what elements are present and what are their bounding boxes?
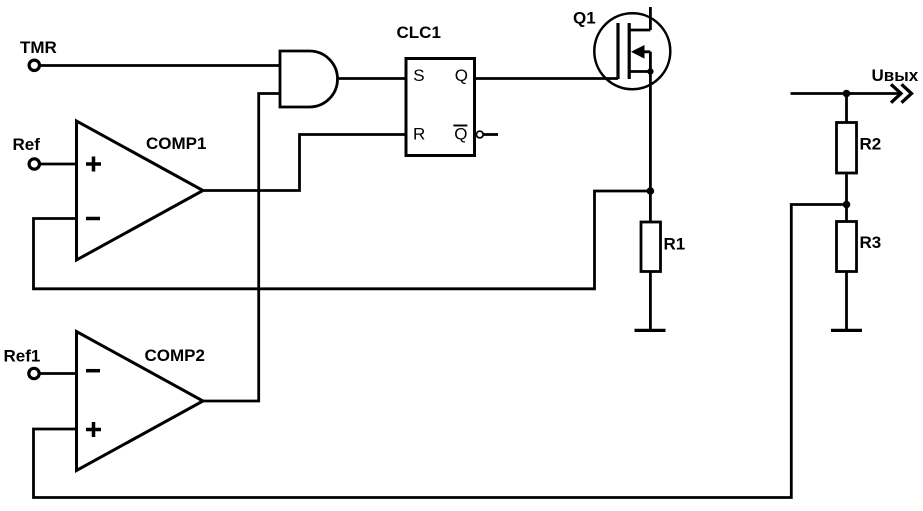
svg-text:COMP1: COMP1 — [146, 134, 206, 153]
svg-text:R1: R1 — [664, 235, 686, 254]
svg-text:Q1: Q1 — [573, 9, 596, 28]
svg-text:R: R — [413, 125, 425, 144]
svg-text:R3: R3 — [860, 233, 882, 252]
svg-text:TMR: TMR — [20, 38, 57, 57]
svg-text:Q: Q — [454, 125, 467, 144]
svg-text:R2: R2 — [860, 135, 882, 154]
svg-text:S: S — [413, 66, 424, 85]
svg-text:CLC1: CLC1 — [397, 23, 441, 42]
svg-text:Q: Q — [455, 66, 468, 85]
svg-text:Ref: Ref — [13, 135, 41, 154]
svg-text:Ref1: Ref1 — [4, 347, 41, 366]
svg-text:Uвых: Uвых — [872, 66, 919, 85]
svg-text:COMP2: COMP2 — [145, 346, 205, 365]
